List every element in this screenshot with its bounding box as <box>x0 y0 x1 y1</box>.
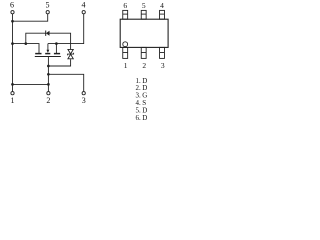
package lead 2 <box>141 47 146 58</box>
Q1 channel stub body <box>45 53 50 55</box>
Q1 channel stub source <box>54 53 60 55</box>
package lead 1 <box>123 47 128 58</box>
svg-text:2: 2 <box>142 61 146 70</box>
package lead 5 <box>141 10 146 19</box>
svg-text:6.D: 6.D <box>136 114 148 122</box>
junction dot pin3 branch <box>47 73 50 76</box>
package lead 4 <box>160 10 165 19</box>
transistor Q1 N-channel MOSFET <box>35 44 61 57</box>
wire diode anode to source rail <box>50 33 71 49</box>
svg-text:6: 6 <box>10 0 14 9</box>
node pin2 terminal <box>47 92 50 95</box>
svg-text:5: 5 <box>142 1 146 10</box>
svg-text:2: 2 <box>46 96 50 105</box>
wire Q1 source lead <box>55 44 57 53</box>
wire drain rail to MOSFET drain <box>13 44 40 53</box>
Q1 channel stub drain <box>35 53 41 55</box>
wire drain bus vertical pin6 to pin1 <box>12 14 14 92</box>
wire gate lead down to pin2 <box>47 57 49 92</box>
wire diode branch riser <box>26 33 46 43</box>
package pin1 indicator circle <box>123 42 128 47</box>
Q1 gate bar <box>35 56 61 58</box>
node pin1 terminal <box>11 92 14 95</box>
node pin3 terminal <box>82 92 85 95</box>
wire pin5 to drain bus <box>13 14 48 21</box>
package body SOT-26 top view <box>120 19 168 47</box>
svg-text:4: 4 <box>82 0 86 9</box>
wire gate branch to pin3 <box>48 74 83 91</box>
zener Z1 bidirectional gate protection <box>68 49 74 58</box>
svg-text:4: 4 <box>160 1 164 10</box>
junction dot pin1 tie <box>11 83 14 86</box>
node pin4 terminal <box>82 11 85 14</box>
svg-text:3: 3 <box>161 61 165 70</box>
node pin6 terminal <box>11 11 14 14</box>
wire lower drain tie pin1 to pin2 <box>13 83 49 85</box>
svg-text:1: 1 <box>124 61 128 70</box>
junction dot pin6 tie <box>11 20 14 23</box>
package lead 6 <box>123 10 128 19</box>
wire zener bottom to gate line <box>48 59 70 66</box>
junction dot pin2 tie <box>47 83 50 86</box>
diode D1 body diode <box>46 31 50 36</box>
junction dot source lead <box>55 42 58 45</box>
svg-text:3: 3 <box>82 96 86 105</box>
junction dot zener-gate <box>47 65 50 68</box>
package lead 3 <box>160 47 165 58</box>
wire source rail to pin4 <box>48 14 84 44</box>
svg-text:1: 1 <box>11 96 15 105</box>
svg-text:6: 6 <box>123 1 127 10</box>
junction dot diode branch <box>24 42 27 45</box>
svg-text:5: 5 <box>46 0 50 9</box>
wire Q1 body arrow <box>47 44 49 51</box>
junction dot drain rail left <box>11 42 14 45</box>
node pin5 terminal <box>46 11 49 14</box>
